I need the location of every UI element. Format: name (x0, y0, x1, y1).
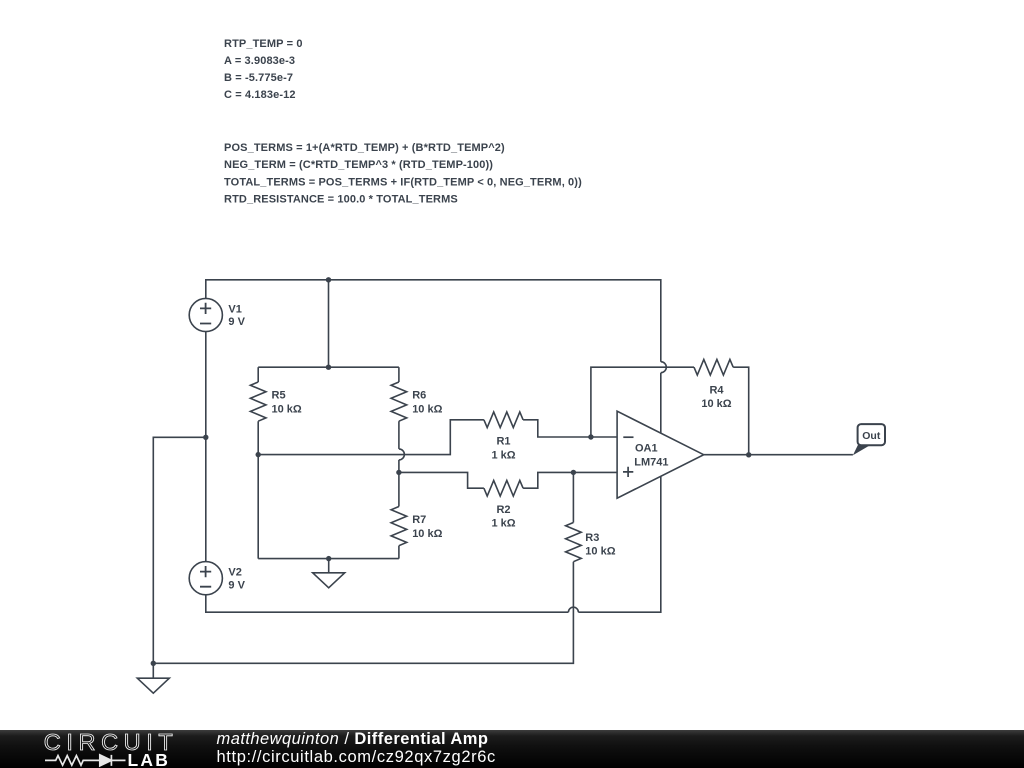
svg-text:9 V: 9 V (228, 580, 245, 592)
label R4 value (701, 384, 731, 410)
ground middle (328, 559, 330, 573)
svg-text:10 kΩ: 10 kΩ (701, 398, 731, 410)
svg-text:A = 3.9083e-3: A = 3.9083e-3 (224, 55, 295, 67)
resistor R5 (257, 367, 259, 382)
svg-text:C = 4.183e-12: C = 4.183e-12 (224, 89, 296, 101)
svg-text:TOTAL_TERMS = POS_TERMS + IF(R: TOTAL_TERMS = POS_TERMS + IF(RTD_TEMP < … (224, 176, 582, 188)
out flag pointer (853, 445, 871, 455)
label V2 value (228, 567, 245, 592)
node top rail junction (326, 277, 331, 282)
voltage source V2 (189, 562, 222, 595)
svg-text:R4: R4 (709, 384, 724, 396)
node R5 bottom junction (256, 452, 261, 457)
wire R5/R6 top rail (258, 366, 399, 368)
op-amp plus input symbol (623, 467, 633, 477)
label R6 value (412, 390, 442, 416)
wire lower box rail (258, 558, 399, 560)
wire feedback from inverting node up and right to R4 (591, 367, 694, 437)
node inverting input junction (588, 434, 593, 439)
svg-text:10 kΩ: 10 kΩ (412, 403, 442, 415)
resistor R3 (572, 472, 574, 522)
svg-text:RTD_RESISTANCE = 100.0 * TOTAL: RTD_RESISTANCE = 100.0 * TOTAL_TERMS (224, 193, 458, 205)
resistor R4 (694, 359, 733, 375)
svg-text:R7: R7 (412, 514, 426, 526)
op-amp U1 triangle (617, 411, 704, 498)
node junction dots (151, 277, 752, 666)
svg-text:POS_TERMS = 1+(A*RTD_TEMP) + (: POS_TERMS = 1+(A*RTD_TEMP) + (B*RTD_TEMP… (224, 142, 505, 154)
wire top rail branch down to R5/R6 rail (328, 280, 330, 367)
wire R2 left from R7 top junction (399, 472, 484, 488)
out flag box (858, 424, 885, 445)
wire V2 bottom wire to V2 minus terminal (206, 595, 569, 612)
wire V1 minus to V2 plus (through junction at y=437.3) (205, 332, 207, 562)
label R1 value (491, 436, 515, 462)
wire R5 bottom lead down to lower box rail (257, 421, 259, 558)
node left ground junction (151, 661, 156, 666)
wire junction to left ground rail and bottom rail to R3 bottom lead (153, 437, 573, 663)
wire right rail lower part down to V2 bottom row (578, 373, 660, 613)
resistor R1 (484, 412, 523, 428)
voltage source V1 (189, 298, 222, 331)
node R5/R6 rail junction (326, 365, 331, 370)
op-amp minus input symbol (623, 436, 633, 438)
wire hop V2 bottom wire over R3 lead (568, 607, 578, 612)
wire hop R6 lead over mid wire (399, 449, 405, 460)
resistor R2 (484, 480, 523, 496)
label R2 value (491, 504, 515, 530)
svg-text:B = -5.775e-7: B = -5.775e-7 (224, 72, 293, 84)
wire R4 right lead down to output node (733, 367, 749, 455)
svg-text:Out: Out (862, 430, 881, 442)
wire R2 right lead to op-amp non-inverting input (523, 472, 617, 488)
resistor R7 (398, 472, 400, 506)
svg-text:RTP_TEMP = 0: RTP_TEMP = 0 (224, 38, 303, 50)
svg-text:R5: R5 (272, 390, 286, 402)
label V1 value (228, 303, 245, 328)
footer bar (0, 730, 1024, 768)
resistor R6 (398, 367, 400, 382)
svg-text:R1: R1 (496, 436, 510, 448)
svg-text:9 V: 9 V (228, 316, 245, 328)
node non-inverting input junction (571, 470, 576, 475)
wire op-amp output to Out flag (704, 454, 853, 456)
node middle ground junction (326, 556, 331, 561)
wire top rail V1+ to right rail (with hop gap at x=660.8,y=367.2) (206, 280, 661, 362)
svg-text:R2: R2 (496, 504, 510, 516)
svg-text:LAB: LAB (128, 750, 171, 768)
svg-text:R6: R6 (412, 390, 426, 402)
node V1-V2 midpoint junction (203, 435, 208, 440)
logo CircuitLab (0, 730, 200, 768)
label equations block 2 (224, 142, 582, 205)
svg-text:NEG_TERM = (C*RTD_TEMP^3 * (RT: NEG_TERM = (C*RTD_TEMP^3 * (RTD_TEMP-100… (224, 159, 493, 171)
label R5 value (272, 390, 302, 416)
ground left (152, 663, 154, 678)
svg-text:10 kΩ: 10 kΩ (585, 546, 615, 558)
wire hop right-rail over R4 feedback wire (661, 362, 667, 373)
svg-text:V2: V2 (228, 567, 241, 579)
label equations block 1 (224, 38, 303, 101)
wire mid wire R5 bottom to R1 left (258, 420, 484, 455)
footer title and url (217, 730, 496, 767)
node R7 top junction (396, 470, 401, 475)
label R3 value (585, 532, 615, 558)
svg-text:1 kΩ: 1 kΩ (491, 449, 515, 461)
label R7 value (412, 514, 442, 540)
svg-text:R3: R3 (585, 532, 599, 544)
svg-text:OA1: OA1 (635, 443, 658, 455)
svg-text:1 kΩ: 1 kΩ (491, 518, 515, 530)
node output junction (746, 452, 751, 457)
svg-text:V1: V1 (228, 303, 241, 315)
svg-text:10 kΩ: 10 kΩ (412, 528, 442, 540)
svg-text:LM741: LM741 (634, 456, 668, 468)
wire R1 right lead to op-amp inverting input (523, 420, 617, 437)
label OA1 (634, 443, 668, 469)
svg-text:10 kΩ: 10 kΩ (272, 403, 302, 415)
